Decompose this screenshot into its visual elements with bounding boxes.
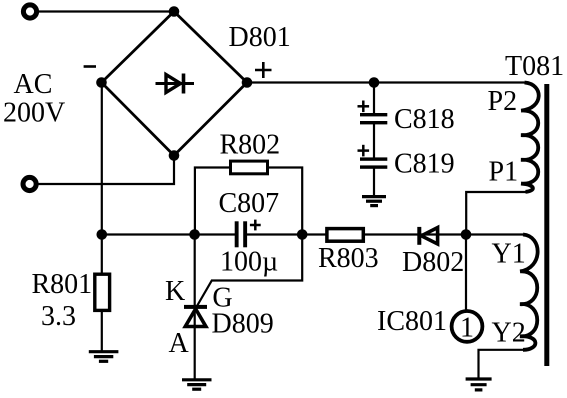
resistor R803	[327, 229, 363, 242]
wire R802 left leg	[195, 168, 231, 235]
node dot bus left	[97, 229, 108, 240]
svg-text:R802: R802	[220, 130, 281, 161]
wire gate of D809	[197, 235, 302, 307]
wire J1 to bridge top	[37, 10, 174, 12]
ground under R801	[89, 352, 119, 362]
main bus wire right segment	[364, 233, 524, 235]
wire P1 lead down	[466, 192, 527, 235]
transformer core	[544, 84, 549, 366]
svg-text:A: A	[169, 328, 190, 359]
node dot bus gate	[297, 229, 308, 240]
ground under D809	[182, 380, 212, 389]
terminal J1 (AC top)	[23, 5, 36, 18]
svg-text:100µ: 100µ	[220, 247, 278, 278]
svg-text:C819: C819	[394, 149, 455, 180]
secondary winding Y1-Y2	[520, 235, 538, 350]
svg-text:AC: AC	[14, 69, 53, 100]
plus C807	[250, 220, 261, 231]
wire C819 to ground	[373, 168, 375, 196]
label plus	[255, 62, 272, 78]
wire J2 to bridge bottom vertex	[36, 156, 174, 185]
primary winding P2-P1	[521, 83, 539, 192]
wire Y2 lead to ground	[479, 350, 524, 378]
wire C818 to C819	[373, 124, 375, 158]
capacitor C818	[360, 113, 387, 124]
terminal J2 (AC bottom)	[23, 177, 36, 190]
svg-text:R801: R801	[32, 269, 93, 300]
node dot bridge top	[169, 6, 180, 17]
svg-text:IC801: IC801	[377, 306, 447, 337]
main bus wire mid segment	[247, 233, 327, 235]
svg-text:1: 1	[460, 313, 474, 344]
svg-text:D802: D802	[402, 247, 464, 278]
node dot bridge right	[242, 77, 253, 88]
wire bridge left vertex down to bus	[101, 83, 103, 235]
diode D802	[417, 227, 437, 245]
wire Y1 dot down to IC801 pin	[465, 235, 467, 311]
bridge diode symbol	[156, 74, 195, 94]
svg-text:D801: D801	[229, 22, 291, 53]
ground under C819	[362, 197, 386, 206]
label minus	[84, 65, 96, 68]
capacitor C807	[235, 221, 247, 247]
node dot bridge bottom	[169, 150, 180, 161]
plus C819	[358, 145, 370, 157]
node dot C818 top	[369, 77, 380, 88]
svg-text:P2: P2	[488, 86, 518, 117]
ground under Y2	[466, 379, 492, 390]
wire bus to R801	[101, 235, 103, 275]
node dot bus K	[189, 229, 200, 240]
svg-text:P1: P1	[489, 157, 519, 188]
thyristor D809 symbol	[184, 305, 207, 327]
svg-text:D809: D809	[212, 309, 274, 340]
wire bridge plus to transformer	[247, 81, 525, 83]
bridge rectifier D801 diamond	[102, 12, 248, 156]
svg-text:C818: C818	[394, 104, 455, 135]
capacitor C819	[360, 157, 387, 168]
IC801 pin 1 circle	[452, 311, 483, 342]
node dot bridge left	[96, 77, 107, 88]
wire dot to C818	[373, 83, 375, 114]
main bus wire left segment	[102, 233, 235, 235]
svg-text:K: K	[165, 276, 185, 307]
wire R802 right leg	[268, 168, 303, 235]
svg-text:200V: 200V	[3, 97, 65, 128]
svg-text:R803: R803	[318, 243, 379, 274]
wire R801 to ground	[101, 310, 103, 351]
node dot Y1 junction	[461, 229, 472, 240]
plus C818	[358, 101, 370, 113]
svg-text:C807: C807	[219, 188, 280, 219]
svg-text:3.3: 3.3	[41, 301, 76, 332]
resistor R801	[95, 274, 110, 310]
thyristor D809 cathode wire	[194, 235, 196, 379]
svg-text:Y2: Y2	[492, 318, 526, 349]
svg-text:Y1: Y1	[492, 239, 526, 270]
svg-text:T081: T081	[505, 51, 564, 82]
resistor R802	[231, 161, 268, 174]
